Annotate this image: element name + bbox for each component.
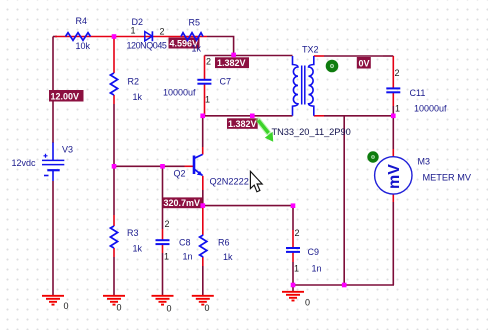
svg-text:120NQ045: 120NQ045 [127,41,167,51]
wire C8 column [162,166,164,296]
svg-text:1k: 1k [223,252,233,262]
wire C7 pin stub bottom [204,84,206,116]
wire R6 column [202,206,204,296]
diode D2 [127,17,167,51]
probe cursor green arrow [258,120,273,142]
wire top-left corner from V3 [53,36,57,38]
svg-text:1.382V: 1.382V [228,119,257,129]
svg-text:V3: V3 [62,145,73,155]
svg-text:0: 0 [205,303,210,313]
svg-text:TX2: TX2 [302,45,319,55]
wire bottom ground bus [293,284,394,286]
junction node C9 bottom [291,283,296,288]
wire base horizontal [114,165,193,167]
capacitor C9 [286,228,322,274]
svg-text:10000uf: 10000uf [163,88,196,98]
svg-text:R3: R3 [127,228,139,238]
svg-text:0: 0 [117,303,122,313]
junction node base R2-R3 [112,164,117,169]
svg-text:1: 1 [395,104,400,114]
wire R2 column [113,37,115,167]
wire meter M3 bottom [392,194,394,285]
ground under R6 [192,296,214,313]
svg-text:10000uf: 10000uf [414,104,447,114]
svg-text:METER MV: METER MV [423,173,472,183]
svg-text:C8: C8 [179,238,191,248]
svg-text:R6: R6 [218,238,230,248]
svg-text:1: 1 [131,26,136,36]
svg-text:1k: 1k [133,244,143,254]
marker green meter [367,151,378,162]
svg-text:C11: C11 [410,88,426,98]
wire R3 column [113,166,115,296]
svg-text:1: 1 [164,252,169,262]
wire meter M3 top [392,116,394,157]
svg-text:1: 1 [294,264,299,274]
wire R5 to corner [207,37,234,56]
resistor R6 [200,235,233,262]
wire Q2 collector vertical [202,116,204,155]
capacitor C8 [156,219,193,262]
wire top bus red (pins R4 D2 R5) [55,36,207,38]
marker green secondary top [326,60,339,73]
wire V3 vertical [52,37,54,144]
svg-text:0: 0 [305,298,310,308]
svg-text:M3: M3 [418,157,431,167]
wire node 1.382V bottom horizontal [203,115,293,117]
svg-text:1k: 1k [133,92,143,102]
junction node C9 top [291,203,296,208]
svg-text:1.382V: 1.382V [217,58,246,68]
svg-text:0V: 0V [359,59,370,69]
ground under C9 [282,292,310,308]
junction node R5-C7 top [231,53,236,58]
svg-text:2: 2 [206,57,211,67]
svg-text:Q2N2222: Q2N2222 [210,177,249,187]
wire C11 pin stub bottom [392,92,394,115]
bias label 1.382V bottom [227,118,258,129]
svg-text:12.00V: 12.00V [51,92,80,102]
wire Q2 emitter vertical [202,176,204,206]
svg-text:1: 1 [205,95,210,105]
wire emitter node horizontal [203,205,293,207]
svg-text:0: 0 [64,301,69,311]
wire TX2 secondary top [314,55,394,57]
transformer model text TN33_20_11_2P90 [272,127,351,137]
junction node 1.382V bottom label anchor [250,114,255,119]
source V3 battery [12,143,74,182]
resistor R5 [181,18,203,54]
svg-text:2: 2 [395,68,400,78]
junction node C7 bottom left [200,114,205,119]
svg-text:R4: R4 [76,16,88,26]
svg-text:10k: 10k [76,41,91,51]
ground under C8 [152,296,174,314]
junction node base C8 [160,164,165,169]
wire C11 pin stub top [392,56,394,88]
svg-text:320.7mV: 320.7mV [164,198,201,208]
wire node 1.382V top horizontal [205,55,293,57]
capacitor C7 [163,57,231,105]
svg-text:2: 2 [160,27,165,37]
wire V3 to ground [52,181,54,296]
svg-text:2: 2 [295,228,300,238]
wire C7 pin stub top [204,56,206,80]
junction node emitter R6 [201,203,206,208]
svg-text:R5: R5 [189,18,201,28]
capacitor C11 [386,68,447,114]
svg-text:Q2: Q2 [174,169,186,179]
svg-text:1n: 1n [312,264,322,274]
bias label 1.382V top [215,57,249,68]
svg-text:C7: C7 [220,77,232,87]
bias label 320.7mV [163,197,202,208]
bias label 0V [357,57,371,69]
bias label 4.596V [169,38,200,49]
junction node ground bus mid [342,283,347,288]
junction node R4-R2 [112,34,117,39]
ground under R3 [103,296,125,313]
wire secondary-bottom to ground-bus vertical [343,116,345,285]
bias label 12.00V [49,90,84,102]
svg-text:0: 0 [167,304,172,314]
wire C9 column [292,206,294,285]
resistor R2 [110,73,142,102]
resistor R4 [66,16,91,51]
svg-text:12vdc: 12vdc [12,158,37,168]
mouse cursor [250,171,262,192]
wire C9 ground stub [292,285,294,292]
junction node C11 bottom [391,114,396,119]
transistor Q2 [174,154,249,186]
meter M3 [375,157,472,195]
svg-text:1n: 1n [183,252,193,262]
svg-text:1k: 1k [192,44,202,54]
resistor R3 [110,226,142,254]
svg-text:TN33_20_11_2P90: TN33_20_11_2P90 [272,127,351,137]
ground under V3 [42,296,69,311]
wire TX2 secondary bottom [314,115,394,117]
svg-text:C9: C9 [308,247,320,257]
transformer TX2 [293,45,319,116]
svg-text:R2: R2 [128,77,140,87]
svg-text:mV: mV [386,164,403,189]
svg-text:2: 2 [165,219,170,229]
